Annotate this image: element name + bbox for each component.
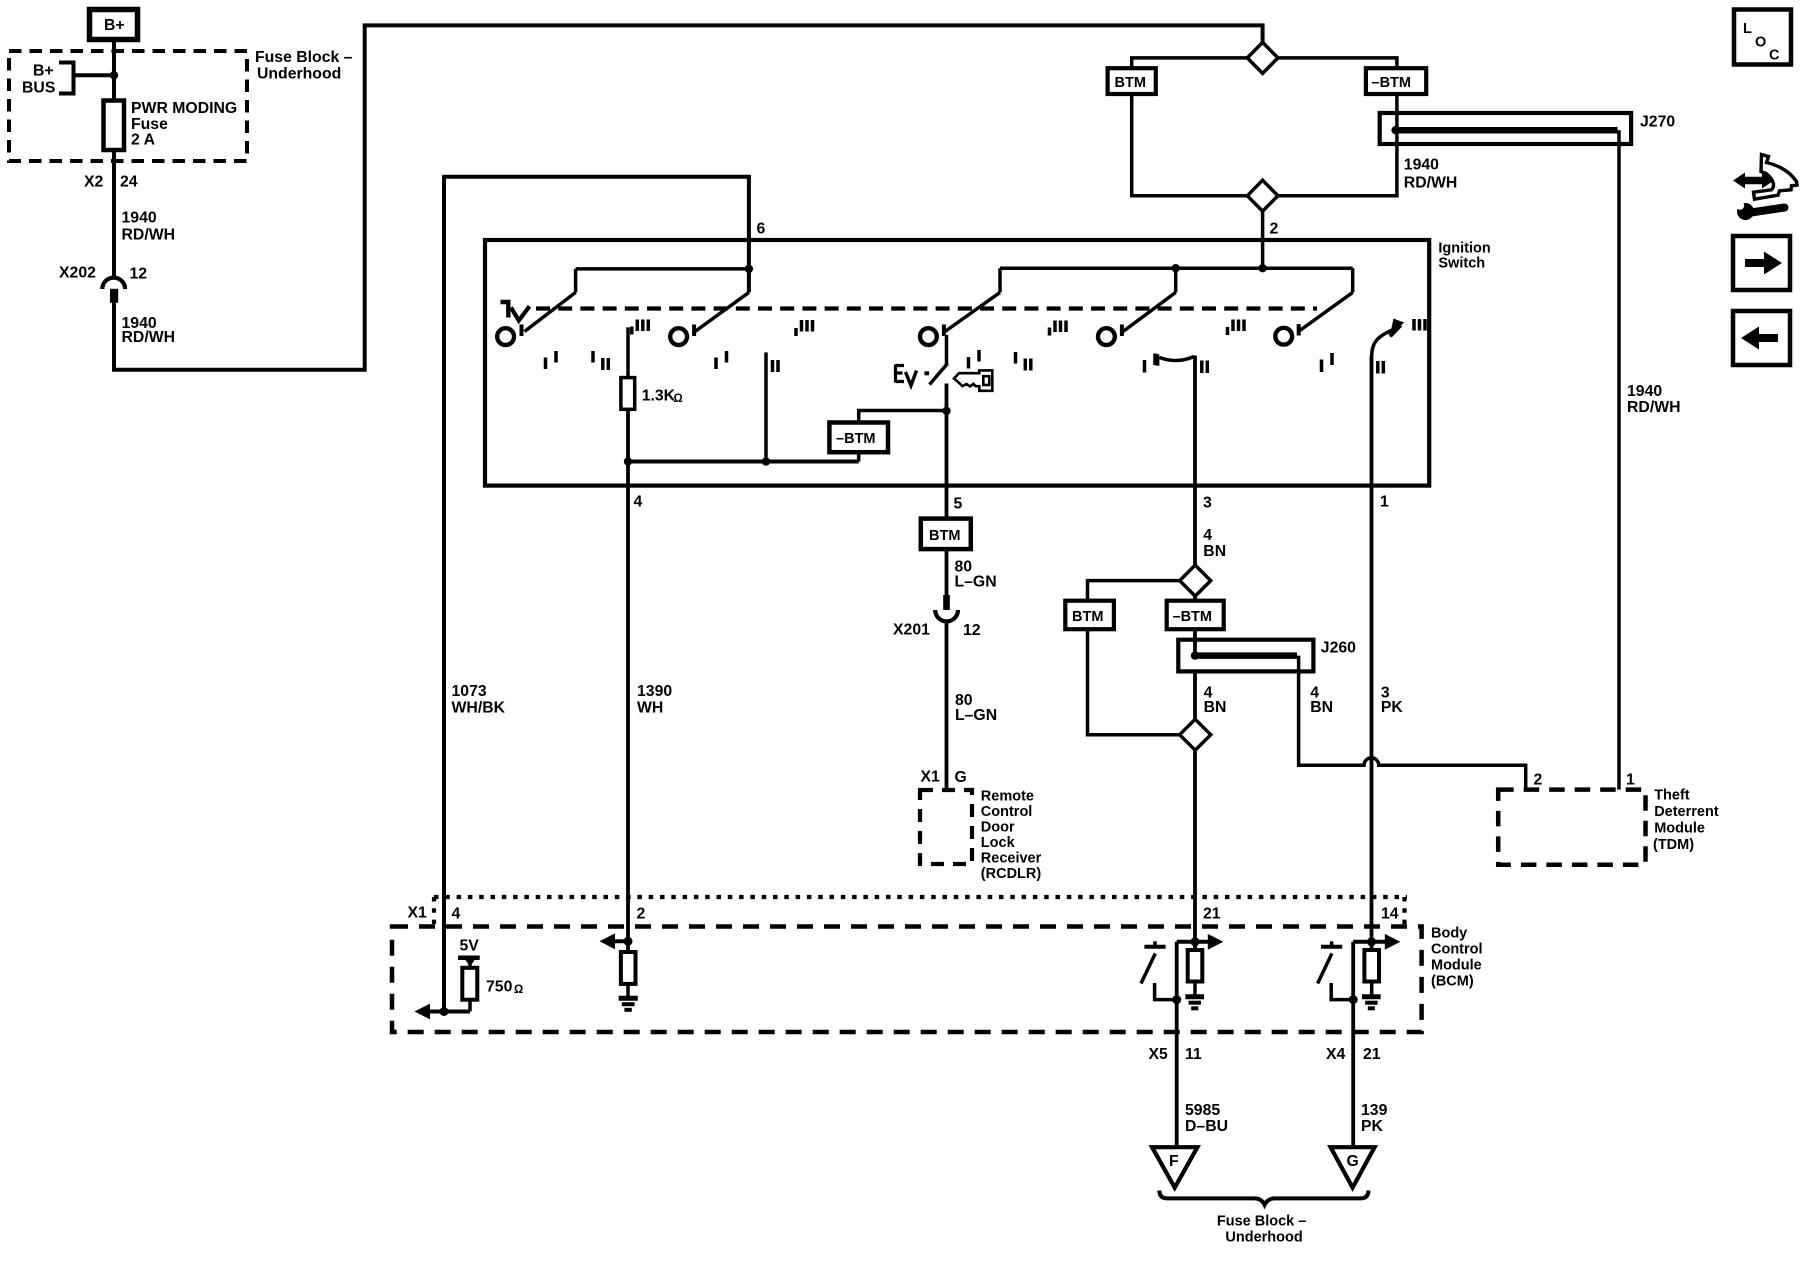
- svg-text:RD/WH: RD/WH: [122, 329, 176, 346]
- svg-text:1073: 1073: [452, 683, 487, 700]
- label TDM pin 1: [1626, 772, 1635, 789]
- battery symbol BTM pin5: [921, 519, 971, 550]
- splice pack J270: [1380, 113, 1676, 144]
- svg-text:Switch: Switch: [1438, 256, 1485, 272]
- icon route wrench: [1733, 155, 1797, 221]
- svg-text:RD/WH: RD/WH: [1627, 399, 1681, 416]
- battery symbol BTM: [1108, 68, 1156, 94]
- svg-text:D–BU: D–BU: [1185, 1118, 1228, 1135]
- svg-text:Module: Module: [1654, 821, 1705, 837]
- svg-text:5985: 5985: [1185, 1102, 1220, 1119]
- splice diamond BN upper: [1180, 565, 1211, 596]
- in-line connector X201 pin 12: [893, 595, 981, 639]
- svg-text:(RCDLR): (RCDLR): [981, 866, 1042, 882]
- svg-text:F: F: [1169, 1153, 1179, 1170]
- svg-text:Ω: Ω: [514, 984, 523, 996]
- label pin 6: [757, 221, 766, 238]
- svg-text:G: G: [955, 769, 967, 786]
- svg-text:PWR MODING: PWR MODING: [131, 100, 237, 117]
- battery symbol BTM mid: [1065, 601, 1114, 630]
- svg-text:Underhood: Underhood: [257, 66, 341, 83]
- svg-text:J260: J260: [1321, 640, 1356, 657]
- svg-text:Control: Control: [1431, 942, 1483, 958]
- wire key switch to pin5: [945, 384, 949, 519]
- svg-text:RD/WH: RD/WH: [1404, 175, 1458, 192]
- svg-text:139: 139: [1361, 1102, 1388, 1119]
- svg-text:WH: WH: [637, 700, 663, 717]
- label 139 PK: [1361, 1102, 1388, 1135]
- resistor pin2: [621, 952, 636, 984]
- terminal B+ BUS: [22, 63, 74, 97]
- svg-text:750: 750: [486, 979, 513, 996]
- key switch blade: [930, 335, 948, 385]
- svg-text:X1: X1: [408, 905, 428, 922]
- svg-text:PK: PK: [1381, 699, 1404, 716]
- connector X4 pin 21: [1326, 1046, 1381, 1063]
- position mark III SW3: [1050, 321, 1067, 336]
- in-line connector X202 pin 12: [59, 265, 147, 303]
- junction pin2 node: [1258, 264, 1266, 272]
- label 4 BN upper: [1203, 527, 1226, 560]
- svg-text:2: 2: [1534, 772, 1543, 789]
- icon LOC box: [1734, 10, 1791, 65]
- label 1390 WH: [637, 683, 672, 717]
- svg-text:Ω: Ω: [674, 393, 683, 405]
- label 1940 RD/WH: [122, 315, 176, 346]
- label Body Control Module BCM: [1431, 926, 1483, 990]
- signal arrow pin2: [600, 933, 633, 949]
- terminal B+: [90, 10, 138, 40]
- svg-text:1: 1: [1380, 494, 1389, 511]
- svg-text:X202: X202: [59, 265, 96, 282]
- svg-text:Module: Module: [1431, 958, 1482, 974]
- label BCM pin 14: [1381, 906, 1399, 923]
- svg-text:Underhood: Underhood: [1225, 1230, 1302, 1246]
- svg-text:O: O: [1755, 35, 1766, 51]
- wire X5-11 to fuse block F: [1175, 942, 1179, 1147]
- svg-text:RD/WH: RD/WH: [122, 227, 176, 244]
- switch symbol pin21: [1141, 941, 1181, 1004]
- ground pin14: [1362, 982, 1381, 1009]
- label Ignition Switch: [1438, 241, 1490, 272]
- svg-text:PK: PK: [1361, 1118, 1384, 1135]
- svg-text:–BTM: –BTM: [1372, 75, 1411, 91]
- key symbol: [954, 370, 992, 390]
- wire BTM to X201: [945, 549, 949, 595]
- resistor 750 ohm: [462, 968, 523, 1012]
- svg-text:L–GN: L–GN: [955, 707, 997, 724]
- label 3 PK: [1381, 685, 1404, 717]
- label 4 BN left: [1204, 685, 1227, 717]
- svg-text:X201: X201: [893, 622, 930, 639]
- svg-text:BN: BN: [1310, 699, 1333, 716]
- fuse block underhood dashed box: [9, 51, 247, 161]
- position mark II SW2: [773, 360, 779, 372]
- wire splice to BTM mid left: [1088, 629, 1180, 735]
- svg-text:4: 4: [634, 494, 643, 511]
- svg-text:1: 1: [1626, 772, 1635, 789]
- signal arrow pin14: [1353, 934, 1400, 950]
- position mark III SW2: [796, 320, 813, 336]
- label PWR MODING Fuse 2A: [131, 100, 237, 149]
- icon arrow right box: [1733, 236, 1790, 290]
- svg-text:Door: Door: [981, 820, 1015, 836]
- position mark II SW3: [1016, 352, 1031, 371]
- dashed switch position line: [536, 306, 1317, 310]
- svg-text:1.3K: 1.3K: [642, 388, 676, 405]
- switch contact SW1: [497, 325, 521, 346]
- svg-text:4: 4: [1203, 527, 1212, 544]
- svg-text:5V: 5V: [460, 938, 480, 955]
- svg-text:J270: J270: [1640, 114, 1675, 131]
- position mark II SW1: [593, 351, 608, 370]
- junction blade4 node: [1172, 264, 1180, 272]
- svg-text:5: 5: [954, 496, 963, 513]
- wire ignition pin6 feed: [442, 177, 749, 293]
- label Fuse Block Underhood bottom: [1217, 1214, 1306, 1246]
- switch contact SW5: [1275, 324, 1298, 345]
- svg-text:4: 4: [452, 906, 461, 923]
- position mark II SW4: [1202, 361, 1208, 374]
- label Fuse Block Underhood: [255, 49, 353, 83]
- label pin 2: [1270, 221, 1279, 238]
- wire pin1 to BCM: [1370, 356, 1374, 951]
- wire splice to BTM left: [1088, 581, 1180, 601]
- position mark I SW1: [546, 351, 557, 369]
- svg-text:–BTM: –BTM: [836, 431, 875, 447]
- momentary arc SW6: [1372, 319, 1404, 357]
- wire pin4 resistor to BCM: [626, 409, 630, 952]
- svg-text:2: 2: [637, 906, 646, 923]
- label pin 1: [1380, 494, 1389, 511]
- position mark I SW5: [1322, 353, 1333, 372]
- label 1940 RD/WH: [122, 210, 176, 244]
- switch contact SW4: [1098, 325, 1122, 346]
- splice pack J260: [1178, 640, 1356, 672]
- switch blade SW5: [1300, 268, 1353, 330]
- svg-text:2: 2: [1270, 221, 1279, 238]
- position mark III SW1: [632, 320, 649, 335]
- theft deterrent module dashed box: [1498, 790, 1645, 865]
- svg-text:BTM: BTM: [1115, 75, 1146, 91]
- resistor 1.3K ohm: [621, 327, 683, 409]
- svg-text:1940: 1940: [1627, 383, 1662, 400]
- wire 1073 WH/BK pin6 to BCM: [442, 177, 446, 1012]
- label BCM pin 21: [1203, 906, 1221, 923]
- svg-text:6: 6: [757, 221, 766, 238]
- svg-text:Fuse: Fuse: [131, 116, 168, 133]
- ground pin21: [1185, 982, 1204, 1009]
- wire -BTM through J270 to lower splice: [1278, 94, 1397, 196]
- svg-text:21: 21: [1203, 906, 1221, 923]
- svg-text:1390: 1390: [637, 683, 672, 700]
- label 4 BN right: [1310, 685, 1333, 717]
- svg-text:1940: 1940: [1404, 157, 1439, 174]
- svg-text:Remote: Remote: [981, 789, 1034, 805]
- svg-text:(TDM): (TDM): [1653, 837, 1694, 853]
- wire diamond to -BTM: [1278, 58, 1397, 68]
- splice diamond lower: [1247, 180, 1278, 211]
- svg-text:BUS: BUS: [22, 80, 55, 97]
- fuse PWR MODING 2A: [104, 100, 125, 151]
- label pin 3: [1203, 495, 1212, 512]
- svg-text:2 A: 2 A: [131, 132, 155, 149]
- signal arrow pin4: [415, 1004, 471, 1020]
- ignition switch box: [485, 240, 1429, 486]
- connector X5 pin 11: [1149, 1046, 1202, 1063]
- svg-text:11: 11: [1185, 1046, 1202, 1063]
- label Theft Deterrent Module TDM: [1653, 788, 1719, 854]
- label 80 L-GN: [955, 559, 997, 591]
- ground pin2: [619, 984, 638, 1010]
- label pin 4: [634, 494, 643, 511]
- svg-text:BTM: BTM: [1072, 609, 1103, 625]
- resistor pin14: [1364, 950, 1379, 982]
- label 1940 RD/WH: [1404, 157, 1458, 192]
- position mark III SW4: [1228, 320, 1245, 336]
- svg-text:BTM: BTM: [929, 528, 960, 544]
- label Remote Control Door Lock Receiver: [981, 789, 1042, 883]
- collector wire to -BTM: [624, 457, 859, 465]
- wire B+ to fuse: [112, 41, 116, 100]
- junction dot: [110, 71, 118, 79]
- position mark I SW2: [716, 351, 727, 369]
- icon arrow left box: [1733, 311, 1790, 365]
- connector X2 pin 24: [84, 174, 138, 191]
- svg-text:Receiver: Receiver: [981, 851, 1042, 867]
- label 80 L-GN: [955, 692, 997, 724]
- switch symbol pin14: [1318, 941, 1358, 1004]
- splice diamond BN lower: [1180, 719, 1211, 750]
- svg-text:L: L: [1743, 21, 1752, 37]
- wire splice to ignition pin 2: [1261, 211, 1265, 268]
- svg-text:(BCM): (BCM): [1431, 974, 1474, 990]
- junction key wire node: [942, 407, 950, 415]
- label 5985 D-BU: [1185, 1102, 1228, 1135]
- svg-text:B+: B+: [33, 63, 54, 80]
- label 1940 RD/WH right: [1627, 383, 1681, 416]
- accessory symbol: [501, 302, 530, 321]
- wire J270 to TDM pin1: [1617, 130, 1621, 789]
- switch blade SW3: [945, 268, 1353, 331]
- svg-text:B+: B+: [104, 17, 125, 34]
- svg-text:BN: BN: [1204, 699, 1227, 716]
- label TDM pin 2: [1534, 772, 1543, 789]
- wire SW2 position II: [764, 352, 768, 461]
- svg-text:X5: X5: [1149, 1046, 1169, 1063]
- arc SW4 position II: [1157, 354, 1194, 365]
- label 1073 WH/BK: [452, 683, 506, 717]
- svg-text:Ignition: Ignition: [1438, 241, 1490, 257]
- wire X201 to RCDLR: [945, 621, 949, 791]
- battery symbol -BTM ignition: [829, 411, 946, 462]
- wire X4-21 to fuse block G: [1351, 942, 1355, 1147]
- position mark I SW3: [969, 350, 980, 369]
- svg-text:WH/BK: WH/BK: [452, 700, 506, 717]
- body control module dashed box: [392, 927, 1422, 1033]
- switch blade SW1: [525, 269, 749, 332]
- switch contact SW2: [670, 325, 694, 346]
- svg-text:12: 12: [963, 622, 981, 639]
- resistor pin21: [1188, 950, 1203, 982]
- switch blade SW4: [1123, 268, 1176, 331]
- svg-text:C: C: [1769, 48, 1780, 64]
- label BCM pin 2: [637, 906, 646, 923]
- svg-text:Theft: Theft: [1654, 788, 1690, 804]
- label Ev: [896, 365, 930, 386]
- splice diamond top: [1247, 42, 1278, 73]
- position mark II SW6: [1378, 361, 1384, 374]
- svg-text:X2: X2: [84, 174, 104, 191]
- wire BTM to lower splice: [1132, 94, 1248, 196]
- svg-text:14: 14: [1381, 906, 1399, 923]
- svg-text:12: 12: [130, 266, 148, 283]
- svg-text:1940: 1940: [122, 210, 157, 227]
- svg-text:G: G: [1347, 1153, 1359, 1170]
- battery symbol -BTM: [1366, 68, 1426, 94]
- svg-text:Lock: Lock: [981, 835, 1016, 851]
- triangle terminal G: [1331, 1147, 1375, 1187]
- RCDLR dashed box: [920, 790, 972, 864]
- battery symbol -BTM mid: [1167, 601, 1224, 630]
- svg-text:L–GN: L–GN: [955, 574, 997, 591]
- wire pin3 to BCM: [1193, 356, 1197, 951]
- junction pin6 node: [745, 265, 753, 273]
- svg-text:–BTM: –BTM: [1173, 609, 1212, 625]
- wire feed path to splice: [114, 25, 1263, 369]
- switch contact SW3: [920, 325, 944, 346]
- wire B+BUS to main: [74, 73, 115, 77]
- label BCM pin 4: [452, 906, 461, 923]
- BCM connector dotted row X1: [408, 897, 1408, 928]
- label pin 5: [954, 496, 963, 513]
- wire J260 branch to TDM pin2: [1299, 656, 1526, 790]
- wire diamond to BTM: [1132, 58, 1248, 68]
- svg-text:X4: X4: [1326, 1046, 1346, 1063]
- svg-text:Deterrent: Deterrent: [1654, 804, 1719, 820]
- connector X1 pin G: [921, 769, 967, 787]
- source 5V: [458, 938, 480, 968]
- signal arrow pin21: [1177, 934, 1224, 950]
- svg-text:21: 21: [1363, 1046, 1381, 1063]
- wire fuse to X202: [112, 150, 116, 277]
- svg-text:3: 3: [1203, 495, 1212, 512]
- svg-text:X1: X1: [921, 769, 941, 786]
- position mark III SW6: [1414, 319, 1425, 331]
- position mark I SW4: [1145, 354, 1156, 373]
- brace fuse block: [1159, 1191, 1368, 1205]
- svg-text:Body: Body: [1431, 926, 1467, 942]
- svg-text:Fuse Block –: Fuse Block –: [1217, 1214, 1306, 1230]
- svg-text:Control: Control: [981, 804, 1033, 820]
- switch blade SW2: [695, 292, 749, 331]
- svg-text:Fuse Block –: Fuse Block –: [255, 49, 353, 66]
- triangle terminal F: [1152, 1147, 1197, 1187]
- svg-text:24: 24: [120, 174, 138, 191]
- svg-text:BN: BN: [1203, 543, 1226, 560]
